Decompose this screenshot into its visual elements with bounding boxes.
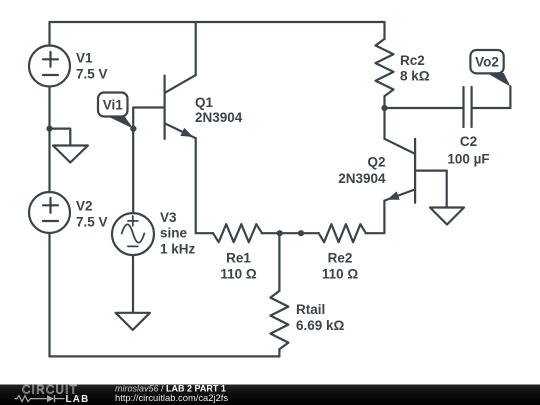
wire bottom rail bbox=[50, 355, 280, 357]
svg-text:Rtail: Rtail bbox=[296, 302, 325, 317]
svg-text:7.5 V: 7.5 V bbox=[76, 67, 108, 82]
svg-text:Q1: Q1 bbox=[195, 95, 214, 110]
wire Q2 collector riser bbox=[383, 108, 385, 139]
resistor Re2 bbox=[319, 224, 366, 242]
wire V3 to ground bbox=[132, 255, 134, 312]
transistor Q2 2N3904 bbox=[384, 139, 415, 203]
wire Rc2 bottom lead bbox=[383, 96, 385, 108]
svg-text:110 Ω: 110 Ω bbox=[322, 267, 359, 282]
resistor Rtail bbox=[270, 291, 288, 349]
svg-text:2N3904: 2N3904 bbox=[338, 171, 386, 186]
wire Re2 to Q2 emitter bbox=[366, 201, 385, 234]
wire Q1 collector riser bbox=[195, 22, 197, 75]
svg-text:http://circuitlab.com/ca2j2fs: http://circuitlab.com/ca2j2fs bbox=[115, 392, 228, 403]
svg-text:Re1: Re1 bbox=[226, 251, 251, 266]
wire C2 to Vo2 bbox=[472, 87, 511, 109]
wire Rtail top lead bbox=[278, 233, 280, 291]
ground GND2 bbox=[116, 313, 150, 330]
wire Q1 base to Vi1/V3 bbox=[133, 108, 164, 214]
svg-text:110 Ω: 110 Ω bbox=[220, 267, 257, 282]
svg-text:V2: V2 bbox=[76, 199, 93, 214]
svg-text:7.5 V: 7.5 V bbox=[76, 215, 108, 230]
svg-text:Rc2: Rc2 bbox=[400, 53, 425, 68]
svg-text:V3: V3 bbox=[160, 210, 177, 225]
voltage source V1 bbox=[29, 46, 70, 87]
wire V2 bottom to bottom rail bbox=[48, 233, 50, 356]
svg-text:C2: C2 bbox=[460, 134, 477, 149]
node flag Vi1 bbox=[98, 93, 136, 132]
voltage source V3 sine bbox=[112, 213, 154, 255]
resistor Rc2 bbox=[376, 39, 394, 96]
svg-text:sine: sine bbox=[160, 226, 188, 241]
node flag Vo2 bbox=[470, 50, 510, 87]
wire Rtail bottom lead bbox=[278, 349, 280, 356]
svg-text:1 kHz: 1 kHz bbox=[160, 242, 196, 257]
logo CIRCUIT LAB bbox=[15, 385, 90, 405]
node junction Re1/Rtail bbox=[277, 230, 283, 236]
wire top rail V1 to Rc2 bbox=[50, 22, 385, 46]
svg-text:2N3904: 2N3904 bbox=[195, 110, 243, 125]
svg-text:6.69 kΩ: 6.69 kΩ bbox=[296, 318, 345, 333]
wire Q1 emitter to Re1 bbox=[196, 138, 213, 233]
ground GND3 bbox=[430, 208, 464, 225]
svg-text:Q2: Q2 bbox=[367, 155, 385, 170]
wire Re1 to Re2 bbox=[262, 232, 319, 234]
svg-text:Vo2: Vo2 bbox=[475, 55, 499, 70]
svg-text:V1: V1 bbox=[76, 51, 93, 66]
svg-text:Re2: Re2 bbox=[328, 251, 353, 266]
wire junction to C2 bbox=[385, 107, 464, 109]
resistor Re1 bbox=[213, 224, 262, 242]
node junction V1/V2/ground bbox=[46, 126, 52, 132]
ground GND1 bbox=[50, 129, 88, 163]
svg-text:Vi1: Vi1 bbox=[103, 98, 124, 113]
svg-text:100 µF: 100 µF bbox=[447, 152, 489, 167]
node junction Re2 side bbox=[298, 230, 304, 236]
svg-text:8 kΩ: 8 kΩ bbox=[400, 69, 430, 84]
svg-text:LAB: LAB bbox=[66, 394, 90, 405]
voltage source V2 bbox=[29, 192, 70, 233]
node junction Rc2/C2/Q2 bbox=[381, 105, 387, 111]
capacitor C2 bbox=[464, 87, 472, 127]
transistor Q1 2N3904 bbox=[165, 75, 196, 139]
wire Q2 base to ground bbox=[415, 171, 447, 208]
wire V1 to V2 left rail bbox=[48, 87, 50, 192]
